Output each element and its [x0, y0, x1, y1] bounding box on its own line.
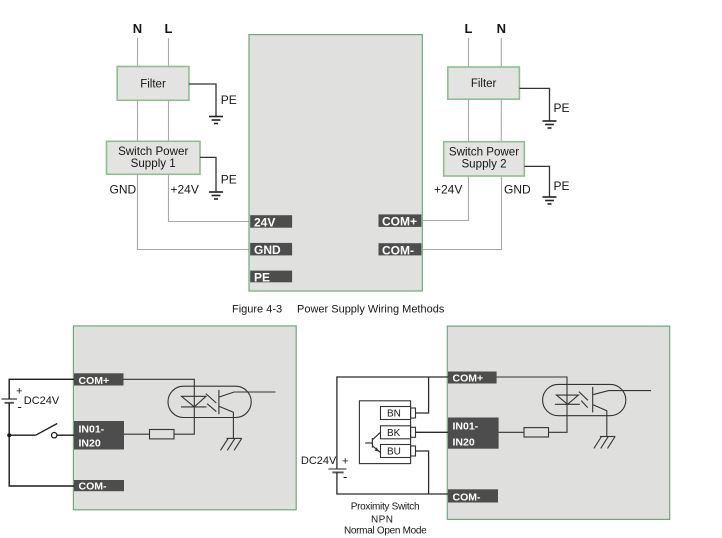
light coupling strokes (left diagram)	[206, 394, 217, 412]
terminal IN01-/IN20 (right diagram)	[448, 418, 499, 449]
svg-text:-: -	[18, 399, 22, 414]
terminal COM-	[379, 243, 422, 257]
input module box (right diagram)	[447, 326, 669, 519]
wire L down to Filter 2	[468, 38, 470, 67]
wire battery- to COM- (right loop bottom)	[337, 472, 448, 494]
svg-text:BN: BN	[387, 409, 401, 420]
NPN transistor of proximity switch	[365, 432, 380, 452]
svg-text:BU: BU	[387, 447, 401, 458]
svg-text:Figure 4-3: Figure 4-3	[232, 304, 282, 316]
svg-text:PE: PE	[221, 173, 237, 187]
wire PS2 GND to terminal COM-	[421, 176, 501, 250]
battery DC24V (left diagram)	[2, 399, 18, 403]
optocoupler U2 body (right diagram)	[543, 384, 626, 415]
input module box (left diagram)	[73, 326, 296, 510]
wire IN01 terminal to resistor (right)	[499, 431, 524, 433]
terminal COM+ (right diagram)	[448, 372, 497, 385]
svg-text:IN20: IN20	[453, 437, 475, 449]
svg-text:Filter: Filter	[140, 79, 166, 91]
svg-text:Supply 1: Supply 1	[131, 157, 176, 170]
filter block Filter 1	[117, 67, 189, 101]
svg-text:N: N	[133, 21, 142, 36]
terminal GND	[250, 243, 292, 257]
svg-text:+: +	[342, 456, 348, 468]
svg-text:Filter: Filter	[471, 78, 497, 90]
ground earth symbol (Filter2 PE)	[543, 121, 557, 128]
optocoupler U1 body (left diagram)	[168, 386, 251, 417]
svg-text:24V: 24V	[254, 215, 275, 229]
svg-text:IN20: IN20	[79, 438, 101, 450]
wire Filter1 N output to Supply1	[137, 100, 139, 141]
BN lead box	[381, 407, 416, 420]
wire N down to Filter 1	[137, 38, 139, 67]
resistor R (right diagram input)	[524, 428, 549, 437]
svg-text:GND: GND	[110, 183, 137, 197]
svg-text:GND: GND	[254, 243, 281, 257]
wire BK to IN01	[416, 431, 449, 433]
wire BN to COM+	[416, 377, 429, 413]
svg-text:Power Supply Wiring Methods: Power Supply Wiring Methods	[297, 304, 445, 316]
svg-text:Supply 2: Supply 2	[461, 158, 506, 171]
svg-text:IN01-: IN01-	[453, 421, 479, 433]
svg-text:+24V: +24V	[171, 183, 199, 197]
wire PS1 +24V to terminal 24V	[169, 174, 250, 221]
wire Filter2 PE lead	[519, 88, 549, 120]
terminal COM+	[379, 214, 422, 228]
svg-text:PE: PE	[221, 93, 237, 107]
wire PS2 +24V to terminal COM+	[421, 176, 468, 221]
wire Filter1 L output to Supply1	[168, 100, 170, 141]
terminal COM+ (left diagram)	[74, 373, 124, 387]
wire switch to terminal IN01	[57, 434, 74, 436]
filter block Filter 2	[448, 67, 520, 99]
ground earth symbol (PS2 PE)	[543, 197, 557, 204]
svg-text:L: L	[465, 21, 473, 36]
svg-text:PE: PE	[554, 101, 570, 115]
svg-text:BK: BK	[387, 428, 401, 439]
ground earth symbol (Filter1 PE)	[209, 117, 223, 124]
wire COM+ to LED anode (left diagram)	[124, 379, 195, 434]
terminal COM- (right diagram)	[448, 489, 498, 503]
svg-text:DC24V: DC24V	[301, 455, 337, 467]
wire Filter2 L output to Supply2	[468, 99, 470, 142]
svg-text:COM+: COM+	[453, 373, 484, 385]
svg-text:N: N	[497, 21, 506, 36]
switch S (input contact)	[9, 424, 57, 438]
resistor R (left diagram input)	[150, 430, 175, 439]
svg-text:GND: GND	[504, 183, 531, 197]
svg-text:NPN: NPN	[371, 515, 393, 526]
wire battery+ to COM+	[9, 379, 74, 399]
ground earth symbol (PS1 PE)	[209, 192, 223, 199]
svg-text:Normal Open Mode: Normal Open Mode	[344, 525, 427, 536]
svg-text:PE: PE	[254, 270, 270, 284]
wire Filter2 N output to Supply2	[500, 99, 502, 142]
wire COM+ to LED anode (right diagram)	[497, 377, 567, 432]
svg-text:-: -	[343, 469, 347, 484]
PLC main module box	[249, 35, 422, 291]
switch power supply PS2	[444, 142, 525, 176]
svg-text:PE: PE	[554, 179, 570, 193]
wire N down to Filter 2	[500, 38, 502, 67]
proximity switch outline box	[359, 401, 410, 464]
wire PS2 PE lead	[524, 166, 549, 196]
terminal PE	[250, 270, 292, 284]
svg-text:COM+: COM+	[79, 375, 110, 387]
svg-text:+: +	[16, 385, 22, 397]
wire BU to COM-	[416, 451, 429, 494]
svg-text:IN01-: IN01-	[79, 424, 105, 436]
wire battery+ to COM+ (right loop top)	[337, 377, 448, 469]
svg-text:L: L	[165, 21, 173, 36]
BU lead box	[381, 445, 416, 458]
wire PS1 PE lead	[200, 157, 216, 191]
LED of optocoupler (left diagram)	[181, 396, 207, 407]
svg-text:COM-: COM-	[79, 481, 107, 493]
chassis ground (right diagram)	[594, 437, 615, 449]
phototransistor of optocoupler (right diagram)	[593, 387, 651, 437]
switch power supply PS1	[107, 141, 201, 174]
terminal IN01-/IN20 (left diagram)	[74, 421, 124, 450]
chassis ground (left diagram)	[221, 438, 242, 450]
svg-text:+24V: +24V	[434, 183, 462, 197]
wire L down to Filter 1	[168, 38, 170, 67]
emitter arrow of proximity transistor	[375, 447, 379, 451]
svg-text:COM+: COM+	[382, 215, 417, 229]
svg-text:DC24V: DC24V	[24, 395, 60, 407]
phototransistor of optocoupler (left diagram)	[219, 390, 276, 439]
battery DC24V (right diagram)	[329, 469, 347, 472]
svg-text:COM-: COM-	[453, 491, 481, 503]
wire PS1 GND to terminal GND	[138, 174, 250, 249]
terminal COM- (left diagram)	[74, 480, 124, 493]
wire battery- to COM-	[9, 403, 74, 486]
junction node (battery minus / switch)	[7, 433, 11, 437]
light coupling strokes (right diagram)	[579, 392, 588, 408]
wire Filter1 PE lead	[189, 84, 216, 117]
BK lead box	[381, 426, 416, 439]
svg-text:Proximity Switch: Proximity Switch	[351, 502, 420, 513]
wire IN01 terminal to resistor	[124, 433, 150, 435]
terminal 24V	[250, 215, 292, 229]
LED of optocoupler (right diagram)	[555, 395, 580, 404]
svg-text:COM-: COM-	[382, 243, 414, 257]
